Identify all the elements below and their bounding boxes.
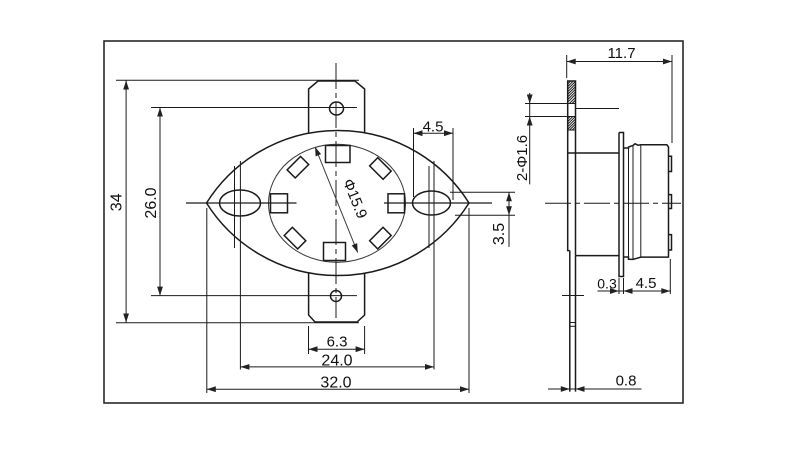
dimension 6.3 (terminal width)	[309, 326, 365, 354]
svg-text:0.8: 0.8	[616, 373, 637, 390]
svg-text:4.5: 4.5	[636, 275, 657, 292]
svg-text:34: 34	[109, 193, 126, 211]
svg-text:4.5: 4.5	[423, 118, 444, 135]
dimension 11.7 (overall depth)	[567, 55, 672, 143]
notch 9 o'clock	[271, 194, 288, 213]
svg-text:24.0: 24.0	[321, 352, 352, 369]
top terminal tab	[309, 81, 365, 134]
terminal end marks	[570, 322, 576, 324]
flange outline (oval mounting flange, front view)	[207, 130, 470, 275]
dimension 34	[116, 80, 359, 323]
notch 4:30	[370, 227, 392, 249]
bottom terminal hole	[331, 291, 342, 302]
vertical centerline	[335, 63, 337, 318]
right mounting hole	[413, 191, 451, 215]
right hole centerline	[428, 166, 430, 248]
svg-text:32.0: 32.0	[320, 375, 351, 392]
side view: cap	[624, 144, 669, 260]
cap crimp tab middle	[669, 195, 672, 209]
horizontal centerline	[186, 202, 297, 204]
svg-text:6.3: 6.3	[327, 334, 348, 351]
svg-text:0.3: 0.3	[597, 276, 617, 292]
terminal tick (hole position)	[562, 295, 584, 297]
svg-text:26.0: 26.0	[143, 187, 160, 218]
left hole centerline	[234, 166, 236, 248]
side view: body left face / terminal root	[568, 153, 570, 251]
svg-text:11.7: 11.7	[607, 45, 635, 62]
dimension phi15.9 (body diameter, diagonal)	[315, 147, 358, 253]
notch 3 o'clock	[388, 194, 405, 213]
dimension 2-phi1.6 (terminal holes)	[525, 93, 570, 184]
side view: flange plate (0.3 thick)	[619, 133, 624, 277]
dimension 3.5 (mounting hole height)	[450, 192, 515, 247]
dimension 24.0 (hole spacing)	[240, 161, 434, 370]
notch 12 o'clock	[326, 146, 351, 163]
cap crimp tab top	[669, 156, 672, 171]
cap crimp tab bottom	[669, 235, 672, 250]
svg-text:Φ15.9: Φ15.9	[339, 177, 370, 222]
hole center line to body	[576, 108, 620, 110]
side view horizontal centerline	[545, 202, 681, 204]
notch 6 o'clock	[324, 243, 346, 261]
side view: bottom terminal strip	[569, 251, 571, 392]
side view: bakelite body	[568, 152, 619, 154]
left mounting hole	[220, 190, 261, 216]
notch 1:30	[370, 158, 392, 180]
dimension 4.5 (mounting hole width)	[414, 128, 454, 200]
dimension 26.0	[151, 108, 357, 296]
svg-text:3.5: 3.5	[491, 223, 508, 245]
body circle (ceramic body, front view)	[269, 144, 406, 262]
notch 10:30	[287, 156, 309, 178]
dimension 0.3 (flange thickness)	[598, 278, 672, 294]
hatch of sectioned terminal	[568, 81, 576, 130]
side view: top terminal strip (sectioned)	[568, 81, 576, 153]
top terminal hole	[330, 102, 344, 115]
dimension 0.8 (terminal thickness)	[548, 386, 642, 392]
dimension 32.0 (flange width)	[207, 208, 469, 393]
bottom terminal tab	[309, 273, 365, 323]
notch 7:30	[284, 227, 306, 249]
dimension 4.5 (cap depth)	[624, 259, 671, 294]
svg-text:2-Φ1.6: 2-Φ1.6	[514, 135, 531, 181]
